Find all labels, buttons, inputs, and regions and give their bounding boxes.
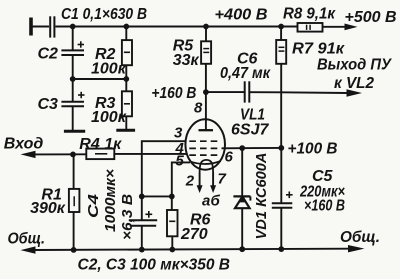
svg-text:б: б bbox=[211, 193, 221, 210]
svg-text:33к: 33к bbox=[173, 52, 200, 69]
svg-text:100к: 100к bbox=[91, 61, 127, 78]
right rail wire bbox=[280, 64, 282, 148]
svg-text:5: 5 bbox=[176, 153, 185, 170]
tube grid row pin 4 bbox=[189, 154, 221, 156]
heater lead pin 2 with arrow bbox=[199, 173, 201, 187]
resistor R3 bbox=[122, 79, 132, 129]
resistor R4 bbox=[86, 149, 114, 160]
tube anode plate bbox=[199, 129, 214, 131]
node C1/C2 bbox=[70, 24, 76, 30]
node input bbox=[70, 152, 76, 158]
input terminal bar bbox=[29, 18, 33, 36]
svg-text:к VL2: к VL2 bbox=[334, 75, 374, 92]
resistor R1 bbox=[69, 154, 80, 249]
heater lead pin 7 with arrow bbox=[212, 173, 214, 187]
node C2/C3 R2/R3 bbox=[70, 76, 76, 82]
wire pin 6 to +100V node bbox=[222, 147, 282, 149]
svg-text:100к: 100к bbox=[91, 109, 127, 126]
capacitor C2 bbox=[61, 27, 84, 80]
tube grid row pin 3 bbox=[189, 140, 221, 142]
resistor R8 bbox=[298, 23, 323, 32]
wire pin 3 to cathode node bbox=[142, 141, 187, 196]
wire top rail bbox=[56, 26, 298, 28]
wire input bbox=[34, 153, 86, 155]
svg-text:C2: C2 bbox=[38, 46, 59, 63]
svg-text:Общ.: Общ. bbox=[340, 229, 380, 246]
arrow common right bbox=[348, 245, 365, 252]
svg-text:3: 3 bbox=[174, 125, 183, 142]
svg-text:VD1 КС600А: VD1 КС600А bbox=[253, 153, 270, 240]
svg-text:+160 В: +160 В bbox=[151, 85, 196, 102]
svg-text:Общ.: Общ. bbox=[8, 231, 46, 248]
tube heater bbox=[200, 160, 214, 173]
resistor R6 bbox=[167, 196, 178, 249]
node +100V VD1 bbox=[239, 145, 245, 151]
svg-text:а: а bbox=[202, 193, 210, 210]
svg-text:×160 В: ×160 В bbox=[304, 198, 345, 215]
capacitor C1 bbox=[50, 16, 54, 37]
arrow output k VL2 bbox=[347, 89, 363, 96]
capacitor C5 bbox=[272, 148, 293, 249]
capacitor C6 bbox=[206, 81, 281, 102]
rail dots bbox=[71, 247, 77, 253]
wire bbox=[33, 26, 50, 28]
svg-text:8: 8 bbox=[194, 100, 203, 117]
output wire to arrow bbox=[281, 91, 347, 94]
wire R5 bottom to tube plate bbox=[205, 64, 207, 131]
common terminal bar under R3 bbox=[116, 129, 135, 132]
svg-text:1000мк×: 1000мк× bbox=[102, 169, 119, 232]
svg-text:+100 В: +100 В bbox=[288, 141, 338, 158]
wire cathode node bbox=[142, 195, 172, 197]
svg-text:270: 270 bbox=[180, 226, 208, 243]
resistor R5 bbox=[201, 27, 211, 64]
svg-text:+400 В: +400 В bbox=[215, 7, 268, 24]
node R5 top bbox=[203, 24, 209, 30]
tube cathode arc bbox=[190, 161, 221, 164]
arrow +500V bbox=[345, 24, 358, 31]
node cathode left bbox=[139, 194, 145, 200]
svg-text:390к: 390к bbox=[30, 200, 66, 217]
resistor R7 bbox=[276, 27, 286, 64]
node +100V C5 bbox=[278, 145, 284, 151]
svg-text:+500 В: +500 В bbox=[345, 9, 397, 26]
svg-text:C1 0,1×630 В: C1 0,1×630 В bbox=[61, 6, 147, 23]
wire grid pin 4 bbox=[114, 153, 187, 155]
resistor R2 bbox=[122, 27, 132, 80]
svg-text:Выход ПУ: Выход ПУ bbox=[317, 57, 392, 74]
svg-text:R8 9,1к: R8 9,1к bbox=[283, 6, 336, 23]
node R2 top bbox=[123, 24, 129, 30]
svg-text:C5: C5 bbox=[312, 168, 334, 185]
tube VL1 envelope bbox=[185, 119, 225, 169]
svg-text:2: 2 bbox=[185, 173, 195, 190]
node R5/C6 plate bbox=[203, 89, 209, 95]
svg-text:6SJ7: 6SJ7 bbox=[231, 122, 269, 139]
wire to +500V arrow bbox=[323, 26, 347, 28]
common terminal bar under C3 bbox=[64, 130, 85, 133]
arrow common left bbox=[21, 246, 36, 253]
svg-text:6: 6 bbox=[225, 149, 234, 166]
common rail wire bbox=[34, 249, 348, 250]
wire bbox=[73, 78, 127, 80]
svg-text:7: 7 bbox=[218, 171, 227, 188]
svg-text:C2, C3 100 мк×350 В: C2, C3 100 мк×350 В bbox=[78, 257, 231, 274]
node cathode right bbox=[169, 194, 175, 200]
svg-text:R4 1к: R4 1к bbox=[79, 136, 122, 153]
svg-text:0,47 мк: 0,47 мк bbox=[220, 65, 271, 82]
svg-text:×6,3 В: ×6,3 В bbox=[119, 194, 136, 240]
input arrow Vhod bbox=[21, 151, 36, 158]
zener diode VD1 bbox=[233, 148, 250, 249]
wire pin 5 to cathode node bbox=[172, 162, 190, 196]
capacitor C3 bbox=[61, 79, 84, 130]
svg-text:R7 91к: R7 91к bbox=[292, 41, 345, 58]
svg-text:C3: C3 bbox=[38, 96, 59, 113]
capacitor C4 bbox=[129, 196, 157, 249]
tube grid row pin 6 bbox=[189, 147, 221, 149]
svg-text:Вход: Вход bbox=[4, 136, 44, 153]
svg-text:C4: C4 bbox=[85, 193, 102, 218]
node R7/R8 bbox=[278, 24, 284, 30]
